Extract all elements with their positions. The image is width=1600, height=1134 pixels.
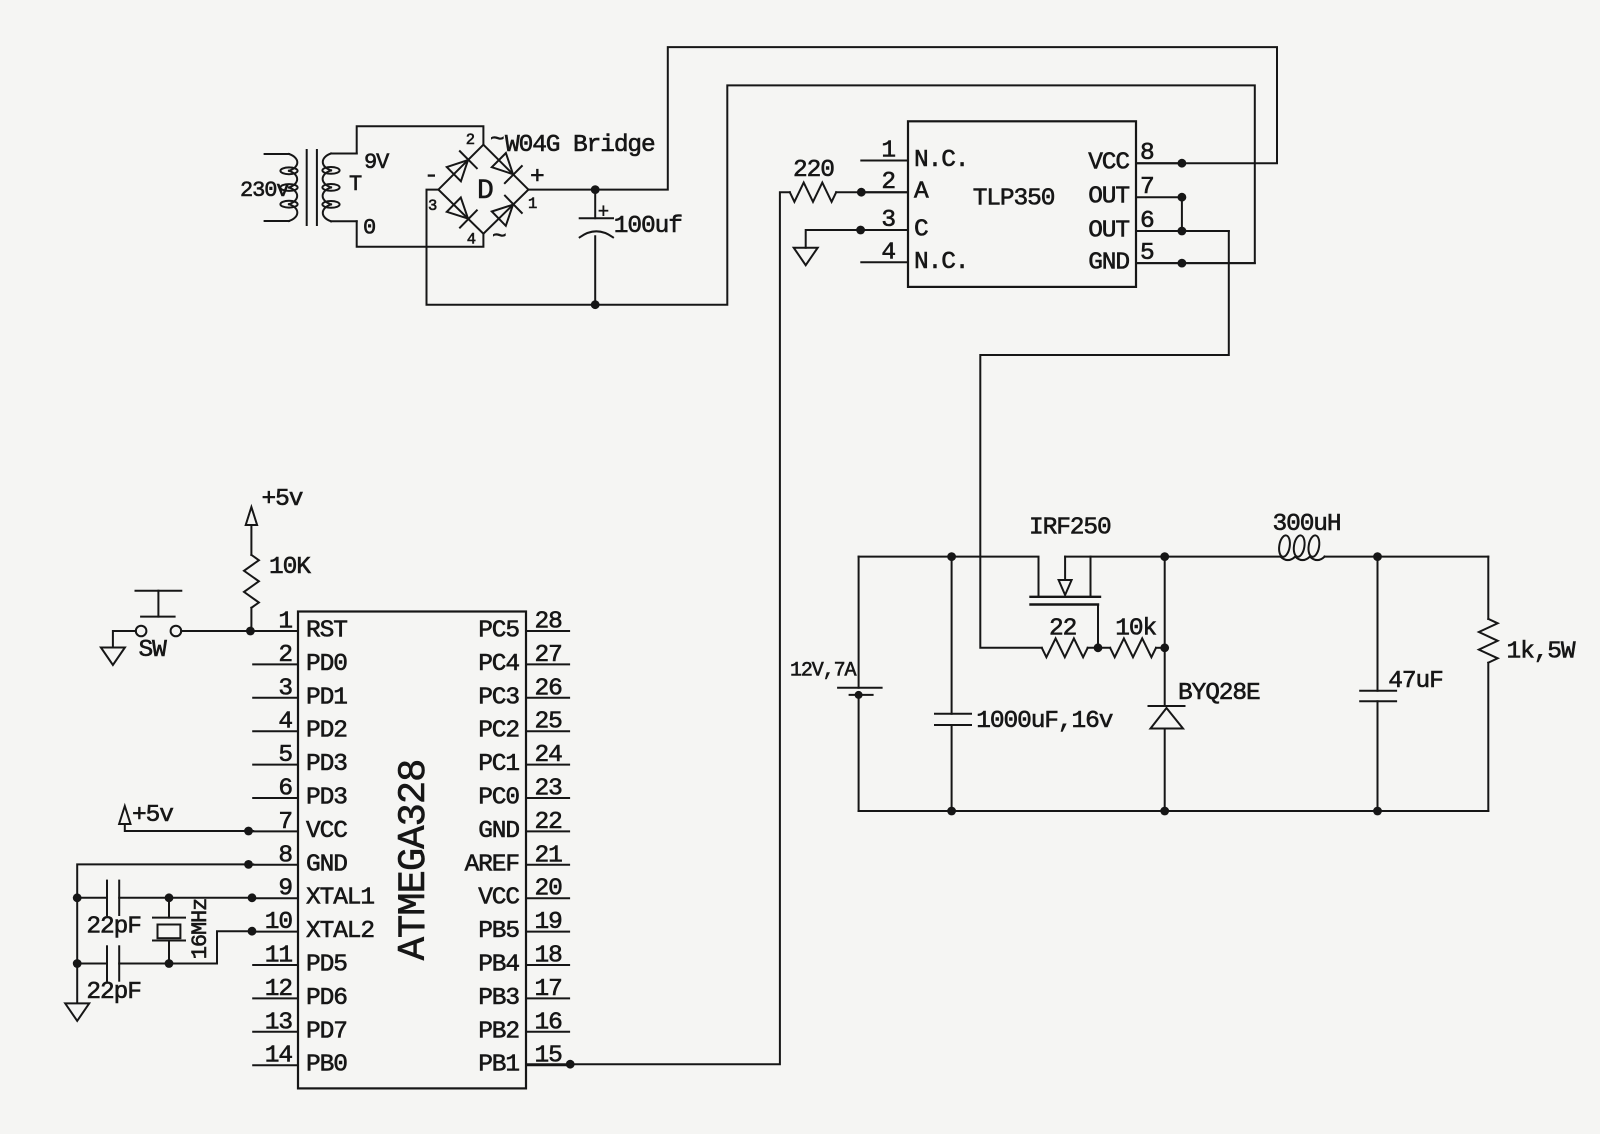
svg-text:GND: GND xyxy=(1088,250,1129,277)
node crystal top junction xyxy=(165,893,174,902)
svg-text:23: 23 xyxy=(535,776,563,803)
label ATMEGA328 xyxy=(392,760,436,961)
svg-text:PD6: PD6 xyxy=(306,985,347,1012)
label SW xyxy=(139,637,168,664)
svg-text:3: 3 xyxy=(428,197,437,215)
ATMEGA328 pin 8 number xyxy=(278,842,292,869)
resistor 1k,5W xyxy=(1479,557,1498,811)
wire secondary bottom to bridge pin4 xyxy=(357,221,484,246)
ATMEGA328 pin 8 label GND xyxy=(306,851,347,878)
label 47uF xyxy=(1388,668,1442,695)
svg-text:~: ~ xyxy=(490,127,504,154)
wire XTAL2 pin10 xyxy=(119,931,253,963)
svg-text:6: 6 xyxy=(1140,208,1154,235)
node crystal bottom junction xyxy=(165,959,174,968)
ATMEGA328 pin 7 stub xyxy=(253,830,298,832)
TLP350 pin 4 stub xyxy=(861,261,908,263)
ATMEGA328 pin 6 stub xyxy=(253,797,298,799)
TLP350 pin 2 number xyxy=(881,169,895,196)
svg-text:16MHz: 16MHz xyxy=(188,899,213,960)
TLP350 pin 1 stub xyxy=(861,160,908,162)
svg-text:13: 13 xyxy=(265,1009,293,1036)
svg-text:C: C xyxy=(914,217,928,244)
ATMEGA328 pin 4 stub xyxy=(253,730,298,732)
resistor 220 xyxy=(790,183,908,202)
node - rail at 100uf bottom xyxy=(591,300,600,309)
svg-text:+5v: +5v xyxy=(262,486,303,513)
capacitor 47uF xyxy=(1360,557,1396,811)
label pin 4 of bridge xyxy=(467,231,476,249)
node left rail bottom cap xyxy=(73,959,82,968)
ATMEGA328 pin 12 stub xyxy=(253,997,298,999)
svg-text:PD1: PD1 xyxy=(306,684,347,711)
ATMEGA328 pin 11 number xyxy=(265,943,293,970)
svg-text:SW: SW xyxy=(139,637,168,664)
TLP350 pin 8 label VCC xyxy=(1088,150,1129,177)
svg-text:N.C.: N.C. xyxy=(914,249,968,276)
label pin 3 of bridge xyxy=(428,197,437,215)
svg-text:1: 1 xyxy=(278,609,292,636)
TLP350 pin 4 number xyxy=(881,239,895,266)
capacitor 1000uF,16v xyxy=(935,557,971,811)
svg-text:PB0: PB0 xyxy=(306,1052,347,1079)
svg-text:300uH: 300uH xyxy=(1273,511,1341,538)
ATMEGA328 pin 20 number xyxy=(535,876,563,903)
label 0 xyxy=(363,216,375,241)
ATMEGA328 pin 7 number xyxy=(278,809,292,836)
wire RST node xyxy=(181,630,253,632)
ATMEGA328 pin 20 stub xyxy=(526,897,569,899)
ATMEGA328 pin 21 stub xyxy=(526,864,569,866)
wire top rail right (mosfet to inductor) xyxy=(1065,556,1280,558)
TLP350 pin 2 stub xyxy=(861,191,908,193)
svg-text:N.C.: N.C. xyxy=(914,147,968,174)
label ~ bottom of bridge xyxy=(492,224,506,251)
svg-text:10: 10 xyxy=(265,909,293,936)
svg-text:PD7: PD7 xyxy=(306,1018,347,1045)
+5v supply arrow at RST xyxy=(246,507,257,555)
svg-text:230v: 230v xyxy=(240,178,289,203)
svg-text:1: 1 xyxy=(528,195,537,213)
ATMEGA328 pin 17 label PB3 xyxy=(478,985,519,1012)
ATMEGA328 pin 3 number xyxy=(278,675,292,702)
svg-text:4: 4 xyxy=(278,709,292,736)
label 9V xyxy=(364,150,390,175)
TLP350 pin 1 number xyxy=(881,138,895,165)
ATMEGA328 pin 28 stub xyxy=(526,630,569,632)
node TLP350 pin2 xyxy=(857,188,866,197)
ATMEGA328 pin 9 label XTAL1 xyxy=(306,885,374,912)
TLP350 pin 8 stub xyxy=(1136,162,1182,164)
TLP350 pin 6 stub xyxy=(1136,230,1229,232)
svg-text:1: 1 xyxy=(881,138,895,165)
ATMEGA328 pin 5 label PD3 xyxy=(306,751,347,778)
label 220 xyxy=(793,157,834,184)
node drain rail at BYQ28E xyxy=(1160,552,1169,561)
capacitor 100uf xyxy=(580,190,613,305)
ATMEGA328 pin 18 stub xyxy=(526,964,569,966)
TLP350 pin 5 number xyxy=(1140,240,1154,267)
ATMEGA328 pin 24 number xyxy=(535,742,563,769)
svg-text:VCC: VCC xyxy=(478,885,519,912)
TLP350 pin 7 number xyxy=(1140,174,1154,201)
svg-text:9: 9 xyxy=(278,876,292,903)
svg-text:8: 8 xyxy=(278,842,292,869)
svg-text:220: 220 xyxy=(793,157,834,184)
ATMEGA328 pin 2 number xyxy=(278,642,292,669)
label 22 xyxy=(1049,615,1076,642)
svg-text:14: 14 xyxy=(265,1043,293,1070)
svg-text:PC3: PC3 xyxy=(478,684,519,711)
ATMEGA328 pin 4 number xyxy=(278,709,292,736)
diode D2 BYQ28E xyxy=(1149,557,1185,811)
wire bottom rail xyxy=(859,810,1489,812)
node 1000uF bottom xyxy=(947,807,956,816)
svg-text:PD5: PD5 xyxy=(306,952,347,979)
wire TLP350 pin6 to gate resistor 22 xyxy=(980,231,1229,648)
node TLP350 pin8 xyxy=(1178,159,1187,168)
svg-text:8: 8 xyxy=(1140,140,1154,167)
svg-text:17: 17 xyxy=(535,976,562,1003)
svg-text:26: 26 xyxy=(535,675,563,702)
svg-text:25: 25 xyxy=(535,709,563,736)
ATMEGA328 pin 22 number xyxy=(535,809,562,836)
ATMEGA328 pin 19 number xyxy=(535,909,562,936)
ATMEGA328 pin 19 label PB5 xyxy=(478,918,519,945)
svg-text:5: 5 xyxy=(1140,240,1154,267)
svg-text:28: 28 xyxy=(535,609,563,636)
svg-text:PD2: PD2 xyxy=(306,718,347,745)
svg-text:27: 27 xyxy=(535,642,562,669)
node XTAL2 at pin xyxy=(248,927,257,936)
svg-text:PC2: PC2 xyxy=(478,718,519,745)
wire SW to ground xyxy=(113,631,136,647)
ATMEGA328 pin 10 number xyxy=(265,909,293,936)
node gate at 22/10k junction xyxy=(1094,643,1103,652)
node VCC pin7 wire xyxy=(244,827,253,836)
ATMEGA328 pin 4 label PD2 xyxy=(306,718,347,745)
ATMEGA328 pin 19 stub xyxy=(526,931,569,933)
svg-text:ATMEGA328: ATMEGA328 xyxy=(392,760,436,961)
diode bridge bottom-left (3 to 4) xyxy=(447,198,477,228)
ATMEGA328 pin 3 label PD1 xyxy=(306,684,347,711)
resistor 10k xyxy=(1110,638,1165,657)
bridge rectifier D diamond xyxy=(438,145,528,234)
ATMEGA328 pin 11 stub xyxy=(253,964,298,966)
label +5v at VCC xyxy=(132,802,173,829)
ATMEGA328 pin 2 stub xyxy=(253,663,298,665)
ATMEGA328 pin 26 number xyxy=(535,675,563,702)
svg-text:PC1: PC1 xyxy=(478,751,519,778)
ground below 22pF capacitors xyxy=(65,1003,89,1021)
ATMEGA328 pin 3 stub xyxy=(253,697,298,699)
svg-text:+: + xyxy=(530,164,544,191)
svg-text:21: 21 xyxy=(535,842,563,869)
label 100uf xyxy=(614,213,682,240)
TLP350 pin 6 label OUT xyxy=(1088,218,1129,245)
svg-text:7: 7 xyxy=(1140,174,1154,201)
TLP350 pin 2 label A xyxy=(914,179,929,206)
svg-text:19: 19 xyxy=(535,909,562,936)
svg-text:RST: RST xyxy=(306,618,347,645)
ATMEGA328 pin 25 stub xyxy=(526,730,569,732)
ATMEGA328 pin 15 stub xyxy=(526,1064,569,1066)
node TLP350 pin5 xyxy=(1178,259,1187,268)
ATMEGA328 pin 15 label PB1 xyxy=(478,1052,519,1079)
TLP350 pin 3 stub xyxy=(861,229,908,231)
mosfet Q1 IRF250 xyxy=(1031,557,1101,648)
svg-text:20: 20 xyxy=(535,876,563,903)
diode bridge top-left (3 to 2) xyxy=(447,151,477,181)
ATMEGA328 pin 16 number xyxy=(535,1009,563,1036)
ATMEGA328 pin 23 number xyxy=(535,776,563,803)
microcontroller U2 ATMEGA328 box xyxy=(298,612,526,1089)
node 47uF top xyxy=(1373,552,1382,561)
node 10k right junction xyxy=(1160,643,1169,652)
ATMEGA328 pin 13 stub xyxy=(253,1031,298,1033)
wire bridge - to TLP350 GND pin5 xyxy=(427,85,1255,304)
svg-text:D: D xyxy=(477,176,493,207)
svg-text:TLP350: TLP350 xyxy=(973,185,1055,212)
crystal Y1 16MHz xyxy=(153,898,185,964)
ATMEGA328 pin 26 stub xyxy=(526,697,569,699)
svg-text:9V: 9V xyxy=(364,150,390,175)
svg-text:2: 2 xyxy=(278,642,292,669)
ATMEGA328 pin 28 number xyxy=(535,609,563,636)
svg-text:5: 5 xyxy=(278,742,292,769)
ATMEGA328 pin 18 label PB4 xyxy=(478,952,519,979)
transformer T primary winding xyxy=(265,154,298,221)
label + of bridge xyxy=(530,164,544,191)
wire GND pin8 to ground rail xyxy=(77,864,253,1002)
ATMEGA328 pin 8 stub xyxy=(253,864,298,866)
svg-text:2: 2 xyxy=(466,131,475,149)
svg-text:PB5: PB5 xyxy=(478,918,519,945)
svg-text:PC0: PC0 xyxy=(478,785,519,812)
ATMEGA328 pin 12 label PD6 xyxy=(306,985,347,1012)
ATMEGA328 pin 2 label PD0 xyxy=(306,651,347,678)
ATMEGA328 pin 16 stub xyxy=(526,1031,569,1033)
node 47uF bottom xyxy=(1373,807,1382,816)
ATMEGA328 pin 22 label GND xyxy=(478,818,519,845)
svg-text:PD3: PD3 xyxy=(306,751,347,778)
TLP350 pin 6 number xyxy=(1140,208,1154,235)
capacitor C 22pF bottom xyxy=(77,946,119,980)
wire top rail left (battery to mosfet drain) xyxy=(859,557,1039,597)
label 1k,5W xyxy=(1507,639,1576,666)
svg-text:15: 15 xyxy=(535,1043,563,1070)
svg-text:PB2: PB2 xyxy=(478,1018,519,1045)
optocoupler U1 TLP350 box xyxy=(908,121,1136,287)
label pin 1 of bridge xyxy=(528,195,537,213)
ATMEGA328 pin 12 number xyxy=(265,976,292,1003)
resistor 10K xyxy=(244,555,259,631)
TLP350 pin 7 stub xyxy=(1136,196,1182,198)
label 12V,7A xyxy=(790,660,857,683)
ATMEGA328 pin 27 stub xyxy=(526,663,569,665)
ATMEGA328 pin 7 label VCC xyxy=(306,818,347,845)
svg-text:10k: 10k xyxy=(1115,615,1156,642)
label TLP350 xyxy=(973,185,1055,212)
svg-text:PD0: PD0 xyxy=(306,651,347,678)
label W04G Bridge xyxy=(505,132,655,159)
svg-text:22pF: 22pF xyxy=(86,979,140,1006)
ATMEGA328 pin 28 label PC5 xyxy=(478,618,519,645)
node BYQ28E bottom xyxy=(1160,807,1169,816)
ground at SW xyxy=(101,648,125,666)
ATMEGA328 pin 5 number xyxy=(278,742,292,769)
ATMEGA328 pin 25 label PC2 xyxy=(478,718,519,745)
svg-text:16: 16 xyxy=(535,1009,563,1036)
svg-text:0: 0 xyxy=(363,216,375,241)
node XTAL1 at pin xyxy=(248,893,257,902)
svg-text:PB3: PB3 xyxy=(478,985,519,1012)
svg-text:47uF: 47uF xyxy=(1388,668,1442,695)
label - of bridge xyxy=(424,163,438,190)
svg-text:VCC: VCC xyxy=(306,818,347,845)
ATMEGA328 pin 9 number xyxy=(278,876,292,903)
svg-text:BYQ28E: BYQ28E xyxy=(1178,680,1260,707)
svg-text:12V,7A: 12V,7A xyxy=(790,660,857,683)
label IRF250 xyxy=(1029,515,1111,542)
svg-text:7: 7 xyxy=(278,809,292,836)
ATMEGA328 pin 26 label PC3 xyxy=(478,684,519,711)
ATMEGA328 pin 16 label PB2 xyxy=(478,1018,519,1045)
svg-text:XTAL2: XTAL2 xyxy=(306,918,374,945)
ATMEGA328 pin 24 label PC1 xyxy=(478,751,519,778)
ATMEGA328 pin 9 stub xyxy=(253,897,298,899)
svg-text:PC5: PC5 xyxy=(478,618,519,645)
svg-text:AREF: AREF xyxy=(465,851,519,878)
ATMEGA328 pin 22 stub xyxy=(526,830,569,832)
label BYQ28E xyxy=(1178,680,1260,707)
ATMEGA328 pin 14 stub xyxy=(253,1064,298,1066)
capacitor C 22pF top xyxy=(77,881,119,915)
svg-text:12: 12 xyxy=(265,976,292,1003)
svg-text:GND: GND xyxy=(306,851,347,878)
ATMEGA328 pin 6 label PD3 xyxy=(306,785,347,812)
node TLP350 pin3 xyxy=(856,226,865,235)
ATMEGA328 pin 5 stub xyxy=(253,764,298,766)
svg-text:3: 3 xyxy=(278,675,292,702)
wire top rail inductor to 1k resistor xyxy=(1325,556,1489,558)
svg-text:A: A xyxy=(914,179,929,206)
node TLP350 pin7 xyxy=(1178,193,1187,202)
svg-text:T: T xyxy=(349,172,362,197)
node GND pin8 wire xyxy=(244,860,253,869)
ATMEGA328 pin 21 number xyxy=(535,842,563,869)
label 230v xyxy=(240,178,289,203)
svg-text:OUT: OUT xyxy=(1088,218,1129,245)
svg-text:22: 22 xyxy=(535,809,562,836)
svg-text:IRF250: IRF250 xyxy=(1029,515,1111,542)
wire XTAL1 pin9 xyxy=(119,897,253,899)
svg-text:1k,5W: 1k,5W xyxy=(1507,639,1576,666)
svg-text:18: 18 xyxy=(535,943,563,970)
svg-text:PD3: PD3 xyxy=(306,785,347,812)
ATMEGA328 pin 25 number xyxy=(535,709,563,736)
node left rail top cap xyxy=(73,893,82,902)
node 1000uF top xyxy=(947,552,956,561)
node TLP350 pin6 xyxy=(1178,227,1187,236)
svg-text:11: 11 xyxy=(265,943,293,970)
ATMEGA328 pin 6 number xyxy=(278,776,292,803)
resistor 22 xyxy=(1042,638,1110,657)
TLP350 pin 8 number xyxy=(1140,140,1154,167)
svg-text:24: 24 xyxy=(535,742,563,769)
battery 12V,7A xyxy=(838,557,882,811)
wire TLP350 pin7 to pin6 xyxy=(1181,197,1183,231)
transformer T secondary winding xyxy=(322,154,356,222)
label +5v at RST xyxy=(262,486,303,513)
ATMEGA328 pin 14 label PB0 xyxy=(306,1052,347,1079)
transformer T core xyxy=(307,150,317,225)
svg-text:XTAL1: XTAL1 xyxy=(306,885,374,912)
ATMEGA328 pin 15 number xyxy=(535,1043,563,1070)
node + rail at 100uf top xyxy=(591,185,600,194)
label 16MHz xyxy=(188,899,213,960)
svg-text:100uf: 100uf xyxy=(614,213,682,240)
ATMEGA328 pin 18 number xyxy=(535,943,563,970)
svg-text:1000uF,16v: 1000uF,16v xyxy=(976,708,1112,735)
ATMEGA328 pin 10 label XTAL2 xyxy=(306,918,374,945)
TLP350 pin 4 label N.C. xyxy=(914,249,968,276)
ATMEGA328 pin 21 label AREF xyxy=(465,851,519,878)
label 22pF top xyxy=(86,914,140,941)
label 300uH xyxy=(1273,511,1341,538)
wire ATMEGA PB1 pin15 to resistor 220 xyxy=(526,192,790,1064)
ATMEGA328 pin 23 label PC0 xyxy=(478,785,519,812)
label ~ top of bridge xyxy=(490,127,504,154)
inductor L1 300uH xyxy=(1278,535,1325,560)
TLP350 pin 3 number xyxy=(881,207,895,234)
svg-text:OUT: OUT xyxy=(1088,184,1129,211)
diode bridge bottom-right (4 to 1) xyxy=(492,196,522,226)
svg-text:~: ~ xyxy=(492,224,506,251)
label 10K xyxy=(269,554,311,581)
node RST xyxy=(246,627,255,636)
svg-text:2: 2 xyxy=(881,169,895,196)
ATMEGA328 pin 27 label PC4 xyxy=(478,651,519,678)
svg-text:PB4: PB4 xyxy=(478,952,519,979)
label D of bridge xyxy=(477,176,493,207)
svg-text:10K: 10K xyxy=(269,554,311,581)
ATMEGA328 pin 11 label PD5 xyxy=(306,952,347,979)
TLP350 pin 5 stub xyxy=(1136,262,1255,264)
ATMEGA328 pin 13 number xyxy=(265,1009,293,1036)
ATMEGA328 pin 1 stub xyxy=(253,630,298,632)
wire TLP350 pin3 to ground xyxy=(806,230,908,248)
svg-text:-: - xyxy=(424,163,438,190)
label 10k xyxy=(1115,615,1156,642)
svg-text:6: 6 xyxy=(278,776,292,803)
TLP350 pin 1 label N.C. xyxy=(914,147,968,174)
svg-text:4: 4 xyxy=(467,231,476,249)
ATMEGA328 pin 13 label PD7 xyxy=(306,1018,347,1045)
label pin 2 of bridge xyxy=(466,131,475,149)
ground at TLP350 pin3 xyxy=(794,248,818,266)
label T xyxy=(349,172,362,197)
svg-text:GND: GND xyxy=(478,818,519,845)
diode bridge top-right (2 to 1) xyxy=(492,153,522,183)
ATMEGA328 pin 23 stub xyxy=(526,797,569,799)
label 1000uF,16v xyxy=(976,708,1112,735)
ATMEGA328 pin 10 stub xyxy=(253,931,298,933)
TLP350 pin 3 label C xyxy=(914,217,928,244)
svg-text:+5v: +5v xyxy=(132,802,173,829)
TLP350 pin 5 label GND xyxy=(1088,250,1129,277)
ATMEGA328 pin 14 number xyxy=(265,1043,293,1070)
